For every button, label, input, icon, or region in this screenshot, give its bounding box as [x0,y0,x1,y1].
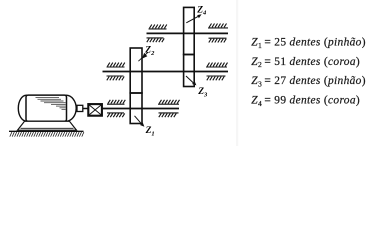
bearing shaft3 left [147,25,167,43]
wire shaft 2 (intermediate shaft) [103,71,229,73]
svg-text:Z3= 27 dentes (pinhão): Z3= 27 dentes (pinhão) [251,75,366,88]
motor M left cap [18,95,34,121]
motor shading lines [36,98,66,110]
ground under motor [9,131,84,136]
bearing shaft2 right [206,63,228,81]
gear Z2 (coroa, shaft 2) [130,48,142,93]
wire shaft 3 (output shaft) [147,32,229,34]
label Z3 with leader arrow [186,76,208,98]
gear Z3 (pinhao, shaft 2) [184,55,195,87]
faint image-edge divider [236,0,238,146]
gear Z4 (coroa, shaft 3) [184,7,195,54]
wire stub to coupling [83,108,89,110]
bearing shaft2 left [107,63,125,81]
label Z4 with leader arrow [186,5,207,23]
bearing shaft3 right [208,24,228,43]
coupling (box with X) [88,104,102,116]
gear Z1 (pinhao, shaft 1) [130,93,142,124]
label Z2 with leader arrow [138,46,155,62]
svg-text:Z1= 25 dentes (pinhão): Z1= 25 dentes (pinhão) [251,37,366,50]
svg-text:Z4= 99 dentes (coroa): Z4= 99 dentes (coroa) [251,95,360,108]
wire shaft 1 (motor shaft) [102,108,179,110]
svg-text:Z2= 51 dentes (coroa): Z2= 51 dentes (coroa) [251,56,360,69]
motor M body [26,95,67,121]
label Z1 with leader arrow [135,116,155,138]
motor M right cap [56,95,76,121]
bearing shaft1 right [158,100,180,117]
motor foot base [18,121,77,130]
bearing shaft1 left [107,100,125,117]
motor shaft stub [77,105,83,111]
